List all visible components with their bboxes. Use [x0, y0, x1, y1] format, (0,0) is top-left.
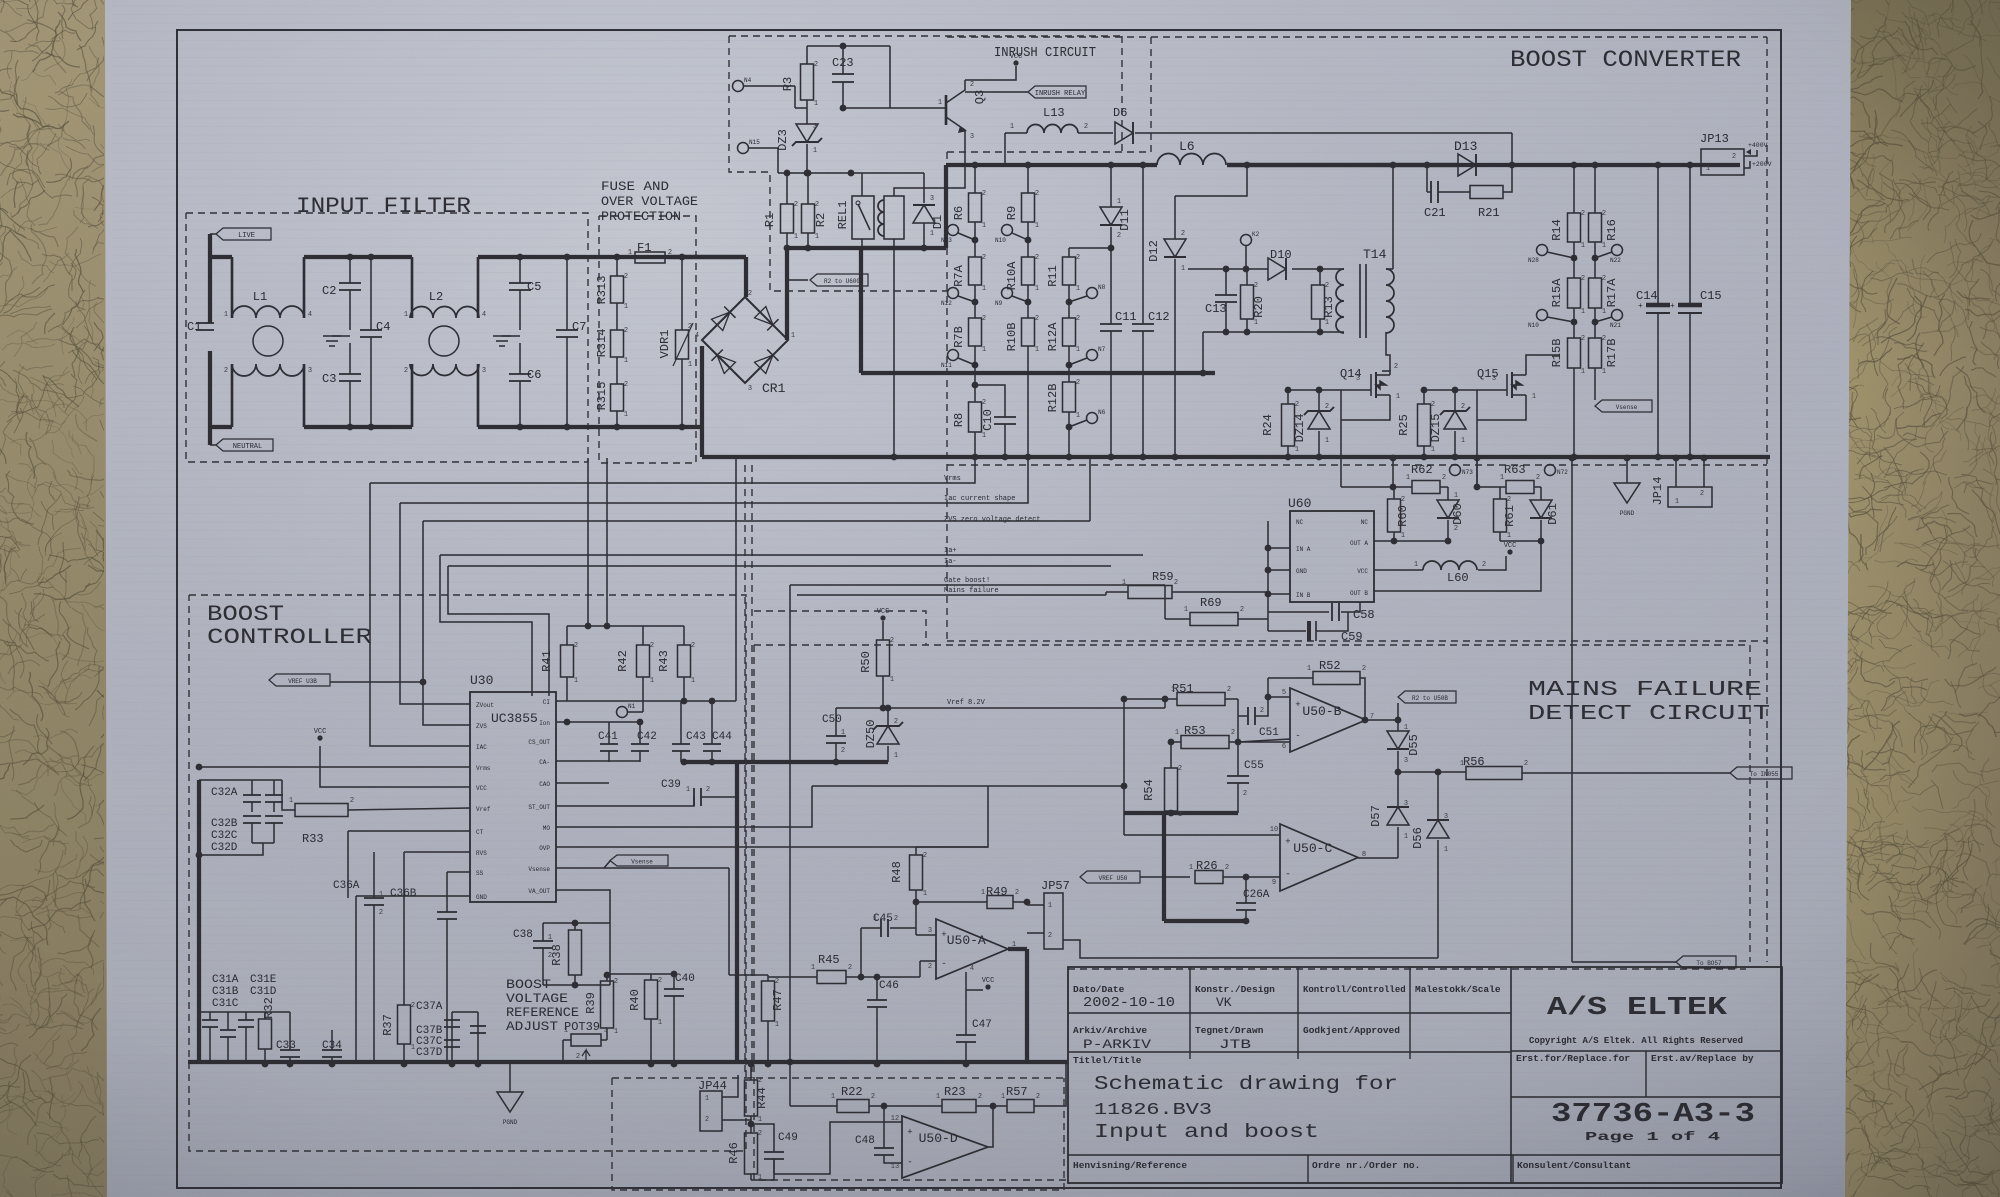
node To IN055 label — [1730, 767, 1792, 779]
ground symbol input filter right — [502, 335, 520, 337]
node K2 terminal — [1241, 235, 1252, 246]
input filter section box — [186, 213, 588, 462]
wire CA- CAO nets — [556, 760, 640, 762]
node N28 terminal — [1537, 245, 1548, 256]
opamp U50-B — [1290, 688, 1366, 752]
wire VA_OUT net — [556, 890, 610, 923]
opamp U50-C — [1280, 824, 1358, 891]
node To BO57 label — [1572, 961, 1676, 963]
wire relay to boost rail riser — [944, 165, 948, 248]
gate drive sub box — [947, 464, 1767, 466]
node LIVE input — [216, 228, 271, 240]
node R2 to U50B label — [1397, 703, 1399, 720]
wire R38 bottom to R39 — [574, 984, 576, 986]
wire U50-B output — [1366, 719, 1398, 721]
wire feedback verticals from bus — [587, 458, 589, 626]
title block frame — [1068, 967, 1782, 1183]
inductor L2 common mode choke — [429, 326, 459, 356]
node N7 terminal — [1087, 350, 1098, 361]
drawing frame border — [177, 30, 1781, 1188]
wire input left vertical — [208, 234, 212, 323]
wire main return bus — [702, 455, 1770, 459]
node N13 terminal — [948, 225, 959, 236]
fuse and over voltage protection section box — [599, 216, 696, 463]
node NEUTRAL input — [216, 439, 273, 451]
wire L6 to T14 branch — [1392, 165, 1394, 269]
wire controller ground bus — [188, 1060, 1068, 1064]
wire U60 left pins — [1268, 547, 1290, 549]
opamp U50-D — [902, 1116, 988, 1178]
node R62 test point — [1450, 465, 1461, 476]
wire vref rail to R51 — [1164, 699, 1166, 708]
wire bridge plus vertical — [785, 248, 789, 340]
wire main HV bus — [861, 371, 1215, 375]
wire inrush common rail — [778, 172, 924, 174]
opamp U50-A — [936, 919, 1008, 979]
wire top rail bridge output to relay — [787, 246, 924, 250]
wire controller left rail — [197, 780, 201, 1064]
node N10 left terminal — [1537, 310, 1548, 321]
node N21 terminal — [1612, 310, 1623, 321]
node N15 terminal — [738, 143, 749, 154]
wire MO OVP nets — [556, 786, 812, 827]
node N22 terminal — [1612, 245, 1623, 256]
wire U60 OUT A — [1374, 540, 1448, 542]
wire U60 OUT B net — [1500, 540, 1541, 542]
wire R41 R42 R43 top rail — [567, 625, 684, 627]
wire relay coil connections — [894, 140, 965, 196]
wire bridge AC vertical — [700, 346, 704, 457]
node N10 terminal — [1002, 225, 1013, 236]
node N11 terminal — [948, 350, 959, 361]
wire input filter top rail — [210, 255, 232, 259]
wire U50-A output — [1024, 899, 1031, 906]
wire U50-A vcc pin — [965, 972, 967, 1035]
wire R53 junction vertical — [1170, 742, 1172, 768]
wire Q15 source to bus — [1477, 389, 1507, 391]
node N12 terminal — [948, 288, 959, 299]
wire Q14 source to bus — [1341, 389, 1371, 391]
node N9 terminal — [1002, 288, 1013, 299]
node Vsense label boost — [1595, 400, 1652, 412]
node N6 terminal — [1087, 413, 1098, 424]
wire thick mains sense rail — [1124, 811, 1238, 815]
wire input filter bottom rail — [210, 425, 232, 429]
node R2 to U600 label — [787, 258, 808, 280]
boost converter section box — [947, 36, 1767, 38]
boost controller section box — [189, 595, 746, 1151]
mains failure detect section box — [754, 644, 1750, 646]
node PGND symbol — [1626, 458, 1628, 483]
node VREF U30 label — [269, 674, 330, 686]
node PGND controller — [509, 1064, 511, 1092]
wire U30 CI net — [556, 700, 736, 702]
node N8 terminal — [1087, 288, 1098, 299]
inrush circuit section box — [729, 35, 1122, 37]
wire thick vref rail — [684, 760, 888, 764]
wire U50-D feedback — [988, 1106, 993, 1147]
wire fuse to bridge — [668, 255, 746, 259]
node Vsense label controller — [556, 867, 729, 869]
output amplifier section box — [612, 1077, 1064, 1079]
node INRUSH RELAY label — [965, 91, 1028, 93]
wire R46 C49 bottom — [751, 1159, 774, 1180]
wire U30 left pin connections — [370, 483, 470, 746]
node N4 terminal — [733, 81, 744, 92]
node VREF U50 label — [1080, 871, 1140, 883]
wire boost top rail — [946, 163, 1157, 167]
wire bus to mains failure vertical — [1571, 458, 1573, 962]
inductor L1 common mode choke — [253, 326, 283, 356]
wire L6 branch to D12 — [1175, 165, 1247, 196]
wire thick opamp output rail — [1008, 947, 1027, 951]
node R63 test point — [1545, 465, 1556, 476]
node N1 terminal — [617, 707, 628, 718]
ground symbol input filter left — [332, 335, 350, 337]
wire R51 input vertical — [1123, 699, 1125, 835]
